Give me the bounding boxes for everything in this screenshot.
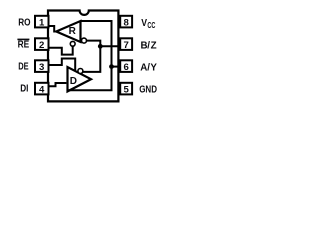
junction node A/Y bbox=[109, 64, 114, 69]
svg-text:R: R bbox=[69, 26, 77, 37]
label VCC (pin 8) bbox=[141, 18, 155, 30]
svg-text:4: 4 bbox=[39, 85, 45, 96]
junction node B/Z bbox=[98, 44, 103, 49]
wire RO: pin1 to R output tip bbox=[49, 26, 57, 32]
svg-text:2: 2 bbox=[39, 40, 44, 51]
svg-text:7: 7 bbox=[124, 40, 129, 51]
wire RE: pin2 to R enable bubble bbox=[49, 46, 73, 55]
wire A: R noninverting input across to vertical bus and down to driver side bbox=[68, 21, 112, 90]
D inverting output bubble (Z) on top edge bbox=[78, 69, 83, 74]
svg-text:8: 8 bbox=[124, 18, 130, 29]
svg-text:1: 1 bbox=[39, 18, 45, 29]
svg-text:GND: GND bbox=[139, 85, 157, 96]
svg-text:RE: RE bbox=[18, 40, 30, 51]
svg-text:B/Z: B/Z bbox=[141, 41, 157, 52]
pin 5 box bbox=[120, 83, 132, 95]
wire DE: pin3 to D enable on top edge bbox=[49, 59, 75, 71]
wire Z: junction down to driver inverting output bubble bbox=[83, 46, 100, 72]
pin 8 box bbox=[120, 16, 132, 28]
svg-text:V: V bbox=[141, 18, 147, 29]
label RE-bar (pin 2) bbox=[17, 39, 29, 51]
wire A/Y to pin 6 bbox=[112, 66, 119, 68]
R enable bubble (active low) bbox=[70, 41, 75, 46]
wire B/Z to pin 7 bbox=[100, 45, 118, 47]
svg-text:A/Y: A/Y bbox=[140, 62, 157, 73]
pin 7 box bbox=[120, 38, 132, 50]
driver D triangle bbox=[68, 67, 92, 91]
receiver R triangle bbox=[56, 21, 80, 42]
svg-text:D: D bbox=[70, 76, 77, 87]
svg-text:5: 5 bbox=[124, 85, 130, 96]
pin 6 box bbox=[120, 60, 132, 72]
R inverting input bubble (B) bbox=[82, 38, 87, 43]
svg-text:DE: DE bbox=[18, 61, 29, 72]
pin 2 box bbox=[35, 38, 49, 50]
svg-text:6: 6 bbox=[124, 62, 129, 73]
IC body U1 outline with notch bbox=[48, 11, 118, 102]
wire B: bubble to junction bbox=[87, 41, 101, 45]
svg-text:CC: CC bbox=[147, 21, 155, 30]
pin 1 box bbox=[35, 16, 49, 28]
svg-text:3: 3 bbox=[39, 62, 44, 73]
pin 4 box bbox=[35, 83, 49, 95]
wire DI: pin4 to D input bbox=[49, 83, 67, 86]
svg-text:DI: DI bbox=[20, 83, 28, 94]
svg-text:RO: RO bbox=[18, 18, 30, 29]
pin 3 box bbox=[35, 60, 49, 72]
